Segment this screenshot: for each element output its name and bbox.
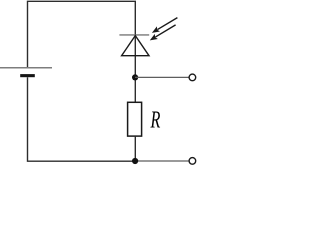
battery B1 long plate (+) [0, 67, 52, 69]
light arrow 2 (lower, incoming) [150, 25, 176, 41]
light arrow 1 (upper, incoming) [152, 18, 178, 33]
wire: left rail down from battery to bottom rail [28, 77, 136, 161]
wire: node to upper terminal [135, 76, 189, 78]
svg-text:R: R [150, 108, 161, 134]
wire: left rail up + top rail + diode feed [28, 1, 136, 67]
resistor R body [128, 102, 142, 136]
terminal: lower output (open circle) [189, 158, 196, 165]
value label R [150, 108, 161, 134]
photodiode D1 triangle (anode) [122, 36, 149, 56]
wire: resistor bottom to bottom rail [134, 136, 136, 161]
terminal: upper output (open circle) [189, 74, 196, 81]
wire: through diode down to resistor [134, 35, 136, 102]
wire: bottom node to lower terminal [135, 160, 189, 162]
node: junction dot between diode and resistor [132, 74, 138, 80]
photodiode D1 cathode bar [119, 34, 149, 36]
battery B1 short thick plate (-) [20, 74, 35, 77]
node: bottom junction dot [132, 158, 138, 164]
